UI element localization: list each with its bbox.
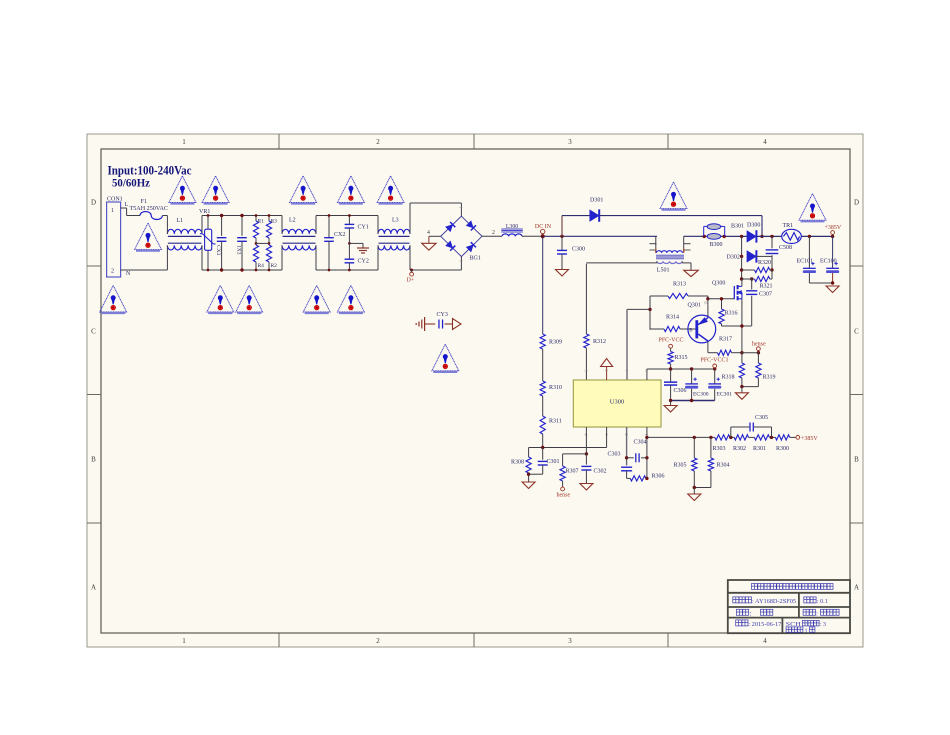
svg-text:D302: D302: [727, 254, 740, 260]
svg-text:1: 1: [805, 627, 808, 634]
svg-text:5: 5: [584, 370, 589, 372]
svg-text:PFC-VCC: PFC-VCC: [659, 338, 684, 344]
svg-text:EC300: EC300: [693, 391, 709, 397]
svg-text:C304: C304: [634, 439, 647, 445]
svg-text:1: 1: [182, 637, 186, 645]
svg-text:R317: R317: [719, 337, 732, 343]
svg-text:R301: R301: [753, 446, 766, 452]
svg-text:R302: R302: [733, 446, 746, 452]
svg-text:(6): (6): [704, 301, 709, 305]
svg-text:CX2: CX2: [334, 232, 345, 238]
svg-text:1: 1: [459, 207, 464, 209]
svg-text:EC101: EC101: [797, 259, 814, 265]
svg-text:Input:100-240Vac: Input:100-240Vac: [108, 164, 193, 178]
svg-text:R4: R4: [258, 263, 265, 269]
svg-text:3: 3: [459, 260, 464, 262]
svg-text:R2: R2: [271, 263, 278, 269]
svg-text:B: B: [854, 456, 859, 464]
svg-text:2: 2: [376, 138, 380, 146]
svg-text:A: A: [91, 584, 96, 592]
svg-text:R319: R319: [763, 374, 776, 380]
svg-text:R321: R321: [760, 283, 773, 289]
svg-text:B301: B301: [731, 224, 744, 230]
svg-text:1: 1: [111, 208, 114, 214]
svg-text:+385V: +385V: [825, 225, 842, 231]
svg-text:L300: L300: [506, 224, 518, 230]
svg-text:EC301: EC301: [717, 391, 733, 397]
svg-text:R318: R318: [722, 374, 735, 380]
svg-text:A: A: [854, 584, 859, 592]
svg-text:R312: R312: [593, 339, 606, 345]
svg-text:CY1: CY1: [358, 225, 369, 231]
svg-text:CX3: CX3: [215, 245, 221, 256]
svg-text:C307: C307: [759, 291, 772, 297]
svg-text:R306: R306: [652, 474, 665, 480]
svg-text:C: C: [91, 328, 96, 336]
svg-text:R304: R304: [717, 462, 730, 468]
svg-text:hense: hense: [557, 493, 571, 499]
svg-text:R320: R320: [758, 260, 771, 266]
svg-text:C306: C306: [674, 388, 687, 394]
svg-text:TR1: TR1: [783, 223, 794, 229]
svg-text:R303: R303: [713, 446, 726, 452]
svg-text:CY2: CY2: [358, 259, 369, 265]
svg-text:CY3: CY3: [437, 312, 448, 318]
svg-text:3: 3: [568, 138, 572, 146]
svg-text:6: 6: [604, 370, 609, 372]
svg-text:R305: R305: [674, 462, 687, 468]
svg-text:8: 8: [644, 370, 649, 372]
svg-text:C305: C305: [755, 415, 768, 421]
svg-text:D: D: [854, 199, 859, 207]
svg-text:PFC-VCC1: PFC-VCC1: [701, 357, 729, 363]
svg-text:CON1: CON1: [107, 197, 123, 203]
svg-text:2: 2: [111, 269, 114, 275]
svg-text:: 2015-06-17: : 2015-06-17: [748, 621, 781, 628]
svg-text:2: 2: [376, 637, 380, 645]
svg-text:L1: L1: [177, 218, 184, 224]
svg-text:U300: U300: [610, 399, 624, 406]
svg-text:C303: C303: [608, 452, 621, 458]
svg-text:C302: C302: [594, 469, 607, 475]
svg-text:BG1: BG1: [470, 256, 481, 262]
svg-text:C300: C300: [572, 247, 585, 253]
svg-text:4: 4: [763, 637, 767, 645]
svg-text:R313: R313: [673, 281, 686, 287]
svg-text:50/60Hz: 50/60Hz: [112, 178, 150, 190]
svg-text:R307: R307: [566, 469, 579, 475]
svg-text:D301: D301: [590, 198, 603, 204]
svg-text:C508: C508: [779, 245, 792, 251]
svg-text:D300: D300: [747, 223, 760, 229]
svg-text:R311: R311: [549, 418, 562, 424]
svg-text:D+: D+: [407, 278, 415, 284]
svg-text:hense: hense: [752, 342, 766, 348]
svg-text:C: C: [854, 328, 859, 336]
svg-text:1: 1: [182, 138, 186, 146]
svg-text:L3: L3: [392, 218, 399, 224]
svg-text:7: 7: [624, 370, 629, 372]
svg-text:: AY168D-2SF05: : AY168D-2SF05: [752, 598, 796, 605]
svg-text:4: 4: [427, 230, 430, 236]
svg-text:Q301: Q301: [688, 303, 701, 309]
svg-text:R300: R300: [776, 446, 789, 452]
svg-text:Q300: Q300: [712, 280, 725, 286]
svg-text:B: B: [91, 456, 96, 464]
svg-text::: :: [816, 610, 818, 617]
svg-text:R1: R1: [258, 219, 265, 225]
svg-text:R315: R315: [675, 355, 688, 361]
svg-text:R310: R310: [549, 385, 562, 391]
svg-text:DC IN: DC IN: [535, 224, 552, 230]
svg-text:+385V: +385V: [801, 436, 818, 442]
svg-text:L2: L2: [289, 218, 296, 224]
svg-text:B: B: [689, 328, 692, 333]
svg-text:2: 2: [492, 230, 495, 236]
svg-text:B300: B300: [710, 242, 723, 248]
svg-text:F1: F1: [141, 199, 147, 205]
svg-text:: 0.1: : 0.1: [817, 598, 828, 605]
svg-text:1X3: 1X3: [236, 245, 242, 255]
svg-text:L: L: [125, 202, 129, 208]
svg-text:R3: R3: [271, 219, 278, 225]
svg-text:R314: R314: [666, 314, 679, 320]
svg-text:R308: R308: [511, 460, 524, 466]
svg-text:3: 3: [568, 637, 572, 645]
svg-text:N: N: [126, 271, 131, 277]
svg-text:L501: L501: [657, 268, 670, 274]
svg-text:T5AH 250VAC: T5AH 250VAC: [130, 206, 169, 212]
svg-text:EC100: EC100: [820, 259, 837, 265]
svg-text:4: 4: [763, 138, 767, 146]
svg-text:: 3: : 3: [820, 621, 826, 628]
svg-text:R316: R316: [725, 310, 738, 316]
svg-text:VR1: VR1: [199, 209, 210, 215]
svg-text:C301: C301: [547, 459, 560, 465]
svg-text:R309: R309: [549, 340, 562, 346]
svg-text::: :: [750, 610, 752, 617]
svg-text:D: D: [91, 199, 96, 207]
